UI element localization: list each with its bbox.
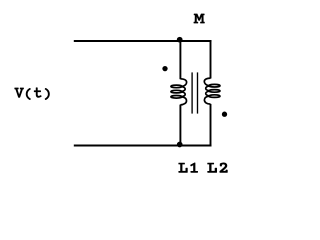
polarity dot L1 xyxy=(162,66,167,71)
label L2 xyxy=(207,163,227,173)
junction node bottom xyxy=(177,142,183,148)
polarity dot L2 xyxy=(222,112,227,117)
wire: L2 branch lower vertical xyxy=(210,104,212,146)
junction node top xyxy=(177,37,183,43)
inductor L2 coil (mirror of L1) xyxy=(204,78,220,104)
label V(t) xyxy=(14,87,49,100)
wire: L1 branch lower vertical xyxy=(179,105,181,146)
label M xyxy=(194,14,205,24)
transformer core line 2 xyxy=(197,72,199,113)
label L1 xyxy=(178,162,198,172)
wire: bottom horizontal xyxy=(74,145,212,147)
wire: L1 branch upper vertical xyxy=(179,41,181,79)
wire: L2 branch upper vertical xyxy=(210,41,212,79)
wire: top horizontal xyxy=(74,40,212,42)
inductor L1 coil xyxy=(171,79,187,105)
transformer core line 1 xyxy=(191,72,193,113)
